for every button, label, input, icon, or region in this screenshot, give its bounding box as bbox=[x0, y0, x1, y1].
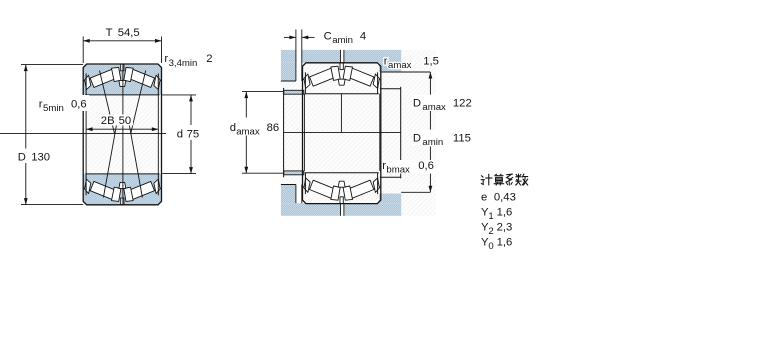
svg-text:3,4min: 3,4min bbox=[169, 58, 198, 69]
svg-text:C: C bbox=[324, 31, 332, 43]
svg-text:2: 2 bbox=[206, 53, 212, 65]
svg-text:T: T bbox=[106, 27, 113, 39]
svg-text:D: D bbox=[413, 97, 421, 109]
svg-text:0: 0 bbox=[488, 241, 493, 252]
svg-text:54,5: 54,5 bbox=[118, 27, 140, 39]
svg-text:amin: amin bbox=[422, 137, 443, 148]
svg-text:5min: 5min bbox=[43, 103, 64, 114]
svg-text:86: 86 bbox=[267, 122, 280, 134]
svg-text:0,6: 0,6 bbox=[71, 98, 87, 110]
svg-text:amax: amax bbox=[388, 60, 412, 71]
svg-text:d: d bbox=[177, 128, 183, 140]
svg-text:1,6: 1,6 bbox=[497, 236, 513, 248]
svg-text:1,5: 1,5 bbox=[423, 56, 439, 68]
svg-text:d: d bbox=[230, 122, 236, 134]
svg-text:4: 4 bbox=[360, 31, 366, 43]
svg-text:2,3: 2,3 bbox=[497, 221, 513, 233]
svg-text:0,43: 0,43 bbox=[494, 192, 516, 204]
svg-text:amax: amax bbox=[236, 126, 260, 137]
svg-text:D: D bbox=[413, 133, 421, 145]
svg-text:0,6: 0,6 bbox=[418, 160, 434, 172]
svg-text:50: 50 bbox=[119, 115, 132, 127]
svg-text:2: 2 bbox=[488, 226, 493, 237]
svg-text:amin: amin bbox=[332, 35, 353, 46]
svg-text:1: 1 bbox=[488, 211, 493, 222]
svg-text:amax: amax bbox=[422, 102, 446, 113]
svg-text:130: 130 bbox=[31, 151, 50, 163]
svg-text:e: e bbox=[481, 192, 487, 204]
svg-text:bmax: bmax bbox=[386, 165, 410, 176]
svg-text:122: 122 bbox=[453, 97, 472, 109]
svg-text:D: D bbox=[18, 151, 26, 163]
svg-text:115: 115 bbox=[453, 133, 471, 145]
svg-text:75: 75 bbox=[187, 128, 200, 140]
svg-text:2B: 2B bbox=[101, 115, 115, 127]
svg-text:1,6: 1,6 bbox=[497, 206, 513, 218]
